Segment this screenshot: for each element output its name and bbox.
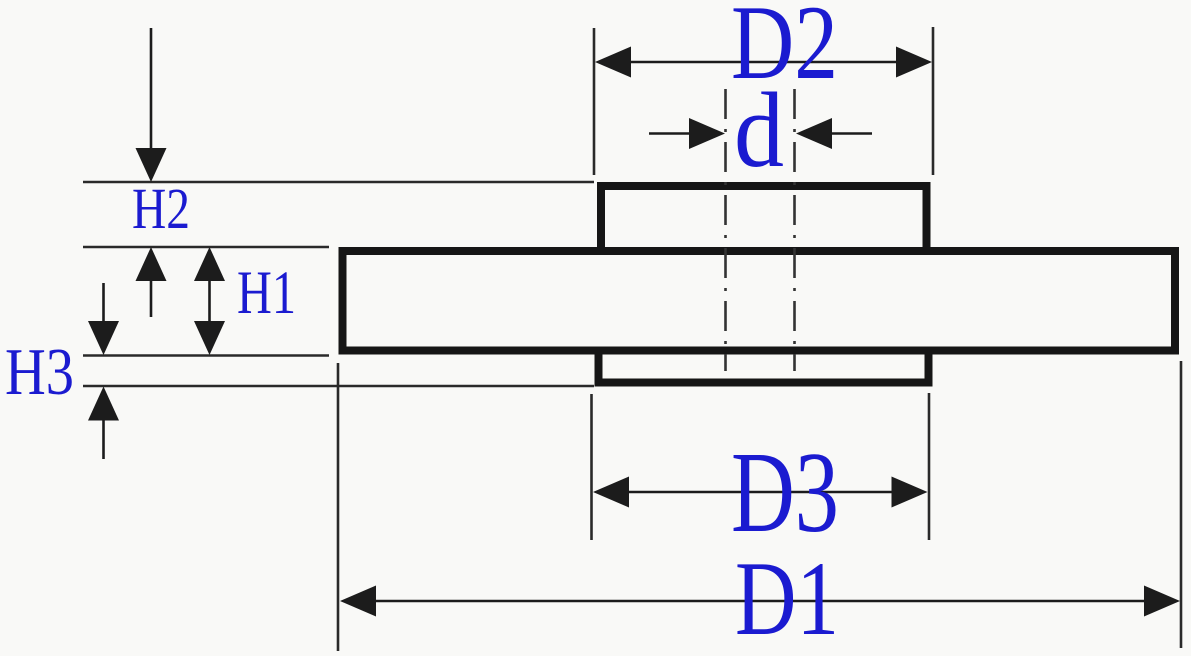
svg-text:H1: H1 [237,260,296,327]
svg-text:H2: H2 [132,176,190,241]
D1 extension line left [337,363,340,651]
D1 dimension line with arrows [340,586,1180,617]
main plate body [343,251,1176,351]
svg-text:H3: H3 [5,335,74,409]
bottom boss [599,351,929,383]
D1 extension line right [1180,361,1183,648]
centerline left of hole d [724,89,727,371]
D2 dimension line with arrows [595,47,932,78]
svg-text:d: d [734,72,784,190]
d dimension arrow left (pointing right) [649,118,725,149]
d dimension arrow right (pointing left) [796,118,872,149]
H2 dimension arrow lower (pointing up) [136,247,167,317]
H3 dimension arrow lower (pointing up) [88,387,119,460]
wire: H3 upper reference line (plate bottom extended left) [83,354,329,357]
wire: H1 upper reference line (plate top extended left) [83,246,329,249]
svg-text:D1: D1 [735,540,839,656]
D3 extension line right [928,393,931,540]
H1 double dimension arrow [194,247,225,355]
D2 extension line right [932,27,935,175]
D3 extension line left [590,394,593,540]
wire: H2 reference line (boss top extended left) [83,181,594,184]
H2 dimension arrow upper (pointing down) [136,28,167,182]
top boss [601,186,927,251]
centerline right of hole d [793,89,796,371]
wire: H3 lower reference line (boss bottom extended left) [83,385,594,388]
H3 dimension arrow upper (pointing down) [88,283,119,355]
D3 dimension line with arrows [593,477,928,508]
D2 extension line left [593,28,596,175]
svg-text:D3: D3 [731,429,839,556]
